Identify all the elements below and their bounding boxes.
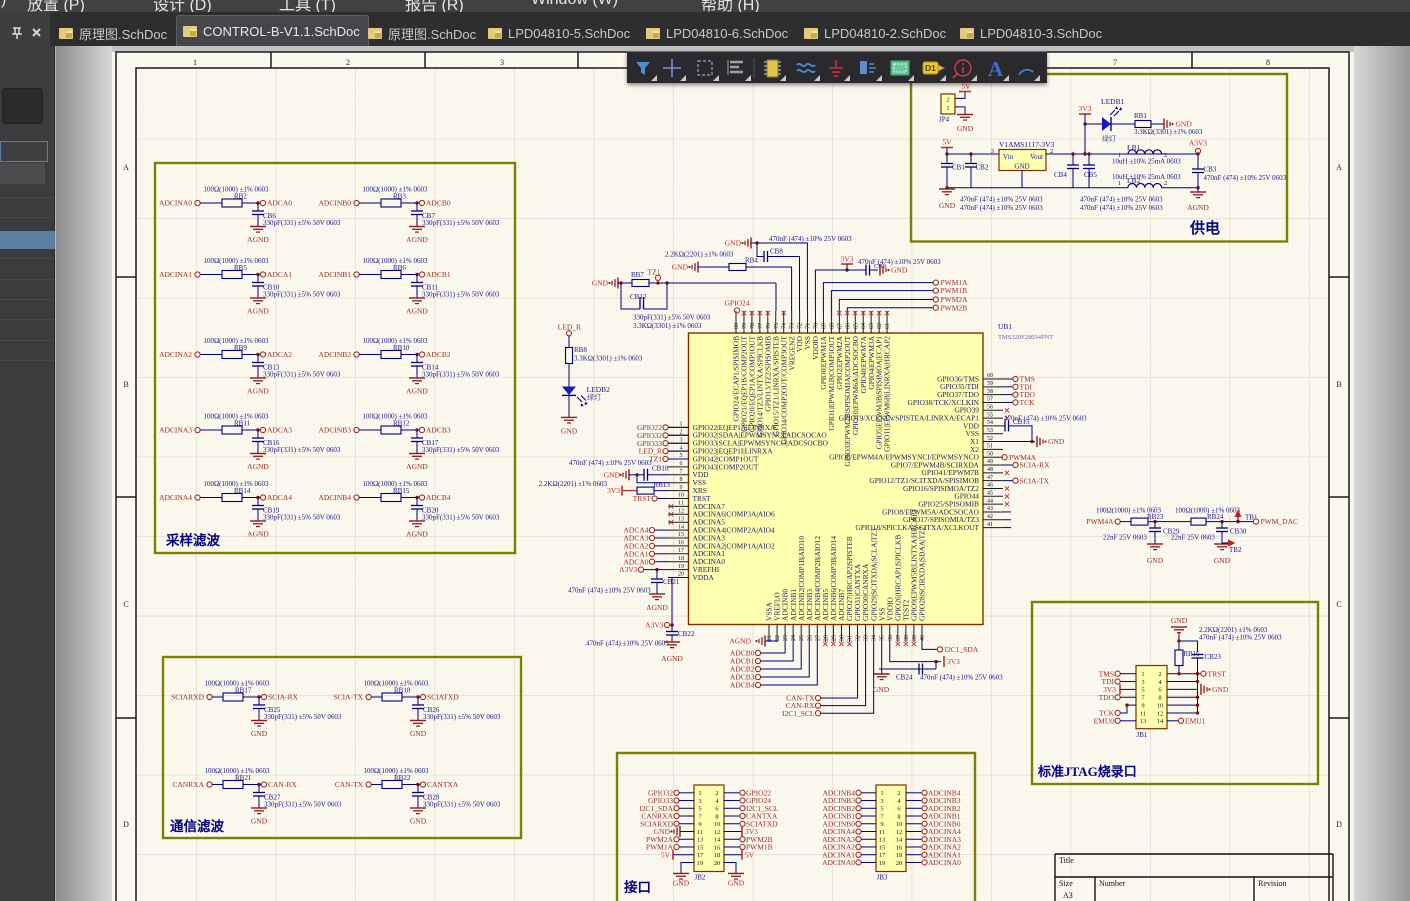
svg-text:采样滤波: 采样滤波: [166, 532, 220, 548]
pin 65 GPIO10|EPWM6A|ADCSOCBO: [854, 311, 856, 333]
svg-text:AGND: AGND: [729, 637, 751, 646]
wire: [821, 642, 858, 698]
MCU UB1 TMS320F28034PNT body: [689, 333, 984, 625]
svg-text:2: 2: [1158, 671, 1161, 678]
resistor RB15: [381, 494, 401, 502]
svg-text:GPIO11|EPWM6B|LINRXA|HRCAP2: GPIO11|EPWM6B|LINRXA|HRCAP2: [883, 336, 892, 452]
pin 8 VSS: [668, 482, 689, 484]
svg-text:D1: D1: [925, 63, 936, 73]
port ADCB2: [419, 352, 424, 357]
svg-text:22: 22: [775, 635, 781, 641]
svg-text:26: 26: [807, 635, 813, 641]
svg-text:GND: GND: [891, 266, 908, 275]
svg-text:35: 35: [880, 635, 886, 641]
wire: [861, 807, 876, 809]
svg-text:58: 58: [987, 389, 993, 395]
wire: [668, 442, 688, 444]
pin 2 GPIO32|SDAA|EPWMSYNCI|ADCSOCAO: [668, 434, 689, 436]
wire: [955, 92, 965, 98]
svg-text:GND: GND: [410, 817, 427, 826]
svg-text:GPIO28|SCIRXDA|SDAA|TZ2: GPIO28|SCIRXDA|SDAA|TZ2: [918, 526, 927, 621]
wire: [724, 854, 742, 856]
svg-text:ADCINA0: ADCINA0: [159, 199, 192, 208]
svg-text:10: 10: [1157, 702, 1164, 709]
svg-text:4: 4: [680, 445, 683, 451]
svg-text:GND: GND: [1214, 556, 1231, 565]
pin 38 TEST2: [905, 625, 907, 643]
svg-text:D: D: [123, 820, 129, 829]
pin 10 TRST: [668, 498, 689, 500]
svg-text:100Ω(1000) ±1% 0603: 100Ω(1000) ±1% 0603: [362, 186, 428, 194]
svg-text:15: 15: [678, 532, 684, 538]
wire: [212, 784, 223, 786]
svg-text:AGND: AGND: [247, 462, 269, 471]
svg-text:C: C: [123, 600, 128, 609]
svg-text:49: 49: [987, 459, 993, 465]
capacitor CB30: [1221, 522, 1223, 528]
pin 73 VREGENZ: [791, 311, 793, 333]
svg-text:RB3: RB3: [393, 193, 406, 201]
svg-text:A3: A3: [1063, 891, 1073, 900]
port PWM4A: [1002, 455, 1007, 460]
svg-text:470nF (474) ±10% 25V 0603: 470nF (474) ±10% 25V 0603: [586, 640, 669, 648]
pin 70 VDDIO: [815, 311, 817, 333]
wire: [724, 792, 740, 794]
wire: [861, 815, 876, 817]
wire: [1120, 673, 1136, 675]
svg-text:Vout: Vout: [1030, 153, 1043, 161]
title block: [1055, 854, 1333, 901]
svg-text:PWM1B: PWM1B: [941, 286, 968, 295]
svg-text:RB10: RB10: [393, 344, 410, 352]
pin 3 GPIO33|SCLA|EPWMSYNCO|ADCSOCBO: [668, 442, 689, 444]
svg-text:GND: GND: [873, 685, 890, 694]
ground GND: [251, 807, 267, 809]
capacitor CB5: [1088, 154, 1090, 165]
svg-text:2: 2: [1164, 180, 1167, 187]
svg-text:RB24: RB24: [1207, 513, 1224, 521]
capacitor CB3: [1192, 168, 1204, 170]
svg-text:11: 11: [697, 829, 703, 836]
ground GND: [1214, 543, 1230, 545]
port ADCA2: [260, 352, 265, 357]
svg-text:ADCINB0: ADCINB0: [318, 199, 351, 208]
wire: [668, 434, 688, 436]
svg-text:28: 28: [823, 635, 829, 641]
pin 59 GPIO35/TDI: [983, 386, 1003, 388]
port SCIA-RX: [261, 694, 266, 699]
wire: [200, 354, 222, 356]
wire: [359, 354, 381, 356]
svg-text:PWM2B: PWM2B: [941, 303, 968, 312]
svg-text:JB2: JB2: [695, 874, 706, 882]
bottom rail wire: [947, 187, 1128, 189]
wire: [673, 854, 694, 856]
svg-text:RB12: RB12: [393, 420, 410, 428]
capacitor CB11: [416, 275, 418, 283]
svg-text:22nF 25V 0603: 22nF 25V 0603: [1103, 534, 1147, 542]
wire: [821, 642, 866, 706]
svg-text:8: 8: [1266, 58, 1270, 67]
pin 44 GPIO25/SPISOMIB: [983, 503, 1003, 505]
svg-text:RB8: RB8: [574, 346, 587, 354]
svg-text:ADCINA0: ADCINA0: [928, 858, 961, 867]
port ADCA0: [260, 200, 265, 205]
wire: [906, 831, 922, 833]
pin 25 ADCINB2|COMP1B|AIO10: [800, 625, 802, 643]
pin 35 VSS: [881, 625, 883, 643]
pin 53 VSS: [983, 433, 1003, 435]
wire: [761, 642, 810, 677]
ground GND: [410, 720, 426, 722]
ground AGND: [250, 453, 266, 455]
pin 40 GPIO28|SCIRXDA|SDAA|TZ2: [921, 625, 923, 643]
svg-text:RB6: RB6: [393, 264, 406, 272]
svg-text:25: 25: [799, 635, 805, 641]
svg-text:TRST: TRST: [633, 494, 652, 503]
wire: [698, 266, 729, 268]
resistor RB5: [222, 271, 242, 279]
svg-text:TCK: TCK: [1020, 398, 1036, 407]
svg-text:55: 55: [987, 412, 993, 418]
svg-text:AGND: AGND: [406, 530, 428, 539]
wire: [823, 283, 933, 311]
LED LEDB2: [562, 387, 576, 396]
pin 50 GPIO6/EPWM4A/EPWMSYNCI/EPWMSYNCO: [983, 456, 1003, 458]
svg-text:10: 10: [714, 821, 721, 828]
svg-text:74: 74: [782, 323, 788, 329]
block box: JTAG (标准JTAG烧录口): [1032, 602, 1318, 784]
svg-text:9: 9: [680, 485, 683, 491]
svg-text:RB4: RB4: [745, 257, 758, 265]
svg-text:AGND: AGND: [1187, 203, 1209, 212]
svg-text:GPIO24: GPIO24: [724, 298, 749, 307]
wire: [1111, 123, 1135, 125]
svg-text:70: 70: [814, 323, 820, 329]
svg-text:18: 18: [896, 852, 903, 859]
svg-text:GND: GND: [1048, 437, 1065, 446]
resistor RB3: [381, 199, 401, 207]
port ADCA4: [260, 495, 265, 500]
svg-text:I2C1_SCL: I2C1_SCL: [782, 709, 815, 718]
pin 6 GPIO43|COMP2OUT: [668, 466, 689, 468]
capacitor CB17: [416, 430, 418, 438]
resistor RB24: [1191, 518, 1206, 525]
ground GND: [728, 872, 744, 874]
svg-text:3: 3: [1141, 679, 1144, 686]
capacitor CB19: [257, 498, 259, 506]
svg-text:100Ω(1000) ±1% 0603: 100Ω(1000) ±1% 0603: [204, 767, 270, 775]
svg-text:TB2: TB2: [1229, 546, 1242, 554]
wire: [402, 784, 420, 786]
svg-text:GND: GND: [728, 878, 745, 887]
svg-text:18: 18: [714, 852, 721, 859]
svg-text:13: 13: [1140, 718, 1147, 725]
svg-text:ADCA1: ADCA1: [267, 270, 292, 279]
ground GND: [561, 416, 577, 418]
svg-text:CB22: CB22: [678, 630, 695, 638]
pin 1 GPIO22|EQEP1A|LINRXA: [668, 426, 689, 428]
block box: sampling filter (采样滤波): [155, 163, 515, 553]
svg-text:100Ω(1000) ±1% 0603: 100Ω(1000) ±1% 0603: [363, 767, 429, 775]
wire: [906, 807, 922, 809]
svg-text:ADCINB2: ADCINB2: [318, 350, 351, 359]
capacitor CB7: [416, 203, 418, 211]
svg-text:3: 3: [698, 798, 701, 805]
svg-text:15: 15: [879, 844, 886, 851]
svg-text:46: 46: [987, 483, 993, 489]
svg-text:1: 1: [1141, 671, 1144, 678]
svg-text:5: 5: [880, 806, 883, 813]
pin 67 GPIO2|EPWM2A: [838, 311, 840, 333]
svg-text:12: 12: [714, 829, 721, 836]
svg-text:470nF (474) ±10% 25V 0603: 470nF (474) ±10% 25V 0603: [1204, 174, 1287, 182]
svg-text:1: 1: [680, 422, 683, 428]
svg-text:7: 7: [1113, 58, 1117, 67]
svg-text:470nF (474) ±10% 25V 0603: 470nF (474) ±10% 25V 0603: [569, 459, 652, 467]
wire GND to VSS pin8: [637, 475, 668, 483]
svg-text:ADCA3: ADCA3: [267, 426, 292, 435]
pin 16 ADCINA2|COMP1A|AIO2: [668, 545, 689, 547]
svg-text:51: 51: [987, 444, 993, 450]
svg-text:1: 1: [193, 58, 197, 67]
svg-text:2: 2: [897, 790, 900, 797]
wire: [242, 429, 260, 431]
svg-text:330pF(331) ±5% 50V 0603: 330pF(331) ±5% 50V 0603: [422, 291, 500, 299]
svg-text:AGND: AGND: [247, 307, 269, 316]
wire: [1120, 681, 1136, 683]
capacitor CB1: [946, 154, 948, 164]
pin 26 ADCINB3: [808, 625, 810, 643]
pin 57 GPIO38/TCK/XCLKIN: [983, 401, 1003, 403]
wire: [655, 553, 668, 555]
wire: [761, 642, 818, 685]
svg-text:100Ω(1000) ±1% 0603: 100Ω(1000) ±1% 0603: [203, 413, 269, 421]
wire: [861, 792, 876, 794]
wire + power port GND: [1003, 441, 1035, 443]
port SCIA-TX: [1003, 480, 1013, 482]
svg-text:RB23: RB23: [1147, 513, 1164, 521]
wire: [1003, 401, 1013, 403]
wire: [655, 537, 668, 539]
svg-text:GND: GND: [725, 239, 742, 248]
svg-text:41: 41: [987, 522, 993, 528]
test point TB2: [1221, 522, 1223, 543]
wire: [680, 831, 694, 833]
svg-text:14: 14: [714, 837, 721, 844]
wire: [242, 497, 260, 499]
svg-text:3.3KΩ(3301) ±1% 0603: 3.3KΩ(3301) ±1% 0603: [1134, 128, 1203, 136]
capacitor CB14: [416, 355, 418, 363]
svg-text:SCIA-TX: SCIA-TX: [1020, 476, 1050, 485]
power port GND: [870, 269, 879, 271]
pin 66 GPIO3|EPWM2B|SPISOMIA|COMP2OUT: [846, 311, 848, 333]
wire: [568, 364, 570, 387]
svg-text:GND: GND: [1014, 163, 1029, 171]
pin 69 GPIO0|EPWM1A: [822, 311, 824, 333]
wire: [668, 458, 688, 460]
svg-text:CB4: CB4: [1054, 171, 1067, 179]
svg-text:RB5: RB5: [234, 264, 247, 272]
pin 60 GPIO36/TMS: [983, 378, 1003, 380]
svg-text:3: 3: [991, 148, 994, 155]
svg-text:CB15: CB15: [1013, 418, 1030, 426]
wire: [724, 823, 740, 825]
pin 78 GPIO20/EQEP1A/COMP1OUT: [751, 311, 753, 333]
svg-text:2.2KΩ(2201) ±1% 0603: 2.2KΩ(2201) ±1% 0603: [539, 480, 608, 488]
svg-text:CAN-TX: CAN-TX: [335, 780, 364, 789]
svg-text:61: 61: [885, 323, 891, 329]
svg-text:ADCINB3: ADCINB3: [318, 426, 351, 435]
resistor RB10: [381, 351, 401, 359]
ground AGND: [409, 453, 425, 455]
svg-text:470nF (474) ±10% 25V 0603: 470nF (474) ±10% 25V 0603: [1199, 634, 1282, 642]
svg-text:Number: Number: [1099, 879, 1126, 888]
svg-text:A3V3: A3V3: [645, 621, 664, 630]
svg-text:330pF(331) ±5% 50V 0603: 330pF(331) ±5% 50V 0603: [263, 371, 341, 379]
svg-text:56: 56: [987, 404, 993, 410]
svg-text:A: A: [123, 163, 129, 172]
wire: [200, 497, 222, 499]
wire: [906, 854, 922, 856]
svg-text:3.3KΩ(3301) ±1% 0603: 3.3KΩ(3301) ±1% 0603: [633, 322, 702, 330]
svg-text:7: 7: [680, 469, 683, 475]
svg-text:330pF(331) ±5% 50V 0603: 330pF(331) ±5% 50V 0603: [633, 314, 711, 322]
svg-text:66: 66: [845, 323, 851, 329]
wire: [401, 274, 419, 276]
wire: [861, 800, 876, 802]
svg-text:ADCB2: ADCB2: [426, 350, 451, 359]
svg-text:8: 8: [715, 813, 718, 820]
svg-text:9: 9: [698, 821, 701, 828]
capacitor CB10: [257, 275, 259, 283]
power port GND: [1163, 119, 1165, 130]
svg-text:36: 36: [888, 635, 894, 641]
resistor RB8: [566, 348, 573, 364]
wire: [212, 696, 223, 698]
svg-text:5V: 5V: [661, 850, 671, 859]
svg-text:AGND: AGND: [247, 235, 269, 244]
svg-text:50: 50: [987, 451, 993, 457]
pin 17 ADCINA1: [668, 553, 689, 555]
wire: [724, 838, 740, 840]
ground AGND: [409, 226, 425, 228]
pin 77 GPIO14/TZ3/LINTXA/SPICLKB: [759, 311, 761, 333]
wire: [242, 274, 260, 276]
pin 15 ADCINA3: [668, 537, 689, 539]
wire: [242, 202, 260, 204]
wire: [1120, 521, 1131, 523]
svg-text:2: 2: [715, 790, 718, 797]
svg-text:16: 16: [714, 844, 721, 851]
svg-text:330pF(331) ±5% 50V 0603: 330pF(331) ±5% 50V 0603: [423, 713, 501, 721]
wire: [401, 429, 419, 431]
wire: [746, 267, 792, 311]
svg-text:8: 8: [1158, 695, 1161, 702]
svg-text:330pF(331) ±5% 50V 0603: 330pF(331) ±5% 50V 0603: [263, 446, 341, 454]
pin 61 GPIO11|EPWM6B|LINRXA|HRCAP2: [886, 311, 888, 333]
svg-text:AGND: AGND: [247, 387, 269, 396]
wire: [1148, 521, 1191, 523]
svg-text:GND: GND: [1212, 685, 1229, 694]
svg-text:100Ω(1000) ±1% 0603: 100Ω(1000) ±1% 0603: [203, 480, 269, 488]
wire: [243, 784, 261, 786]
wire: [906, 846, 922, 848]
svg-text:TDO: TDO: [1099, 693, 1115, 702]
svg-text:3.3KΩ(3301) ±1% 0603: 3.3KΩ(3301) ±1% 0603: [574, 355, 643, 363]
wire: [761, 642, 794, 661]
svg-text:CB30: CB30: [1230, 528, 1247, 536]
svg-text:2: 2: [680, 430, 683, 436]
svg-text:71: 71: [806, 323, 812, 329]
svg-text:GND: GND: [604, 470, 621, 479]
port PWM1B: [933, 288, 938, 293]
svg-text:ADCB0: ADCB0: [426, 199, 451, 208]
svg-text:GND: GND: [957, 124, 974, 133]
svg-text:1: 1: [698, 790, 701, 797]
pin 21 VSSA: [768, 625, 770, 643]
pin 47 GPIO12/TZ1/SCITXDA/SPISIMOB: [983, 480, 1003, 482]
port ADCA1: [260, 272, 265, 277]
pin 56 GPIO39: [983, 409, 1003, 411]
wire: [243, 696, 261, 698]
svg-text:CANTXA: CANTXA: [427, 780, 459, 789]
svg-text:38: 38: [904, 635, 910, 641]
svg-text:CB5: CB5: [1084, 171, 1097, 179]
pin 41 GPIO18/SPICLKA/SCITXA/XCLKOUT: [983, 527, 1003, 529]
resistor RB12: [381, 426, 401, 434]
power port GND: [1200, 684, 1202, 695]
ground AGND: [250, 226, 266, 228]
pin 4 GPIO23|EQEP1I|LINRXA: [668, 450, 689, 452]
wire: [1003, 386, 1013, 388]
pin 11 ADCINA7: [668, 505, 689, 507]
svg-text:GND: GND: [561, 427, 578, 436]
wire: [655, 545, 668, 547]
wire TZ1 net: [649, 282, 776, 284]
svg-text:CB2: CB2: [976, 164, 989, 172]
sheet grid: [137, 68, 1329, 901]
svg-text:AGND: AGND: [406, 235, 428, 244]
svg-text:5: 5: [680, 453, 683, 459]
ground GND: [1147, 543, 1163, 545]
resistor RB11: [222, 426, 242, 434]
wire: [1120, 705, 1136, 713]
svg-text:330pF(331) ±5% 50V 0603: 330pF(331) ±5% 50V 0603: [263, 291, 341, 299]
svg-text:GPIO29|SCITXDA|SCLA|TZ3: GPIO29|SCITXDA|SCLA|TZ3: [869, 528, 878, 621]
wire VDDA pin20 down: [668, 578, 672, 626]
svg-text:2.2KΩ(2201) ±1% 0603: 2.2KΩ(2201) ±1% 0603: [665, 251, 734, 259]
svg-text:RB21: RB21: [235, 774, 252, 782]
svg-text:73: 73: [790, 323, 796, 329]
svg-text:ADCB4: ADCB4: [730, 681, 755, 690]
capacitor CB29: [1154, 522, 1156, 528]
wire: [1120, 720, 1136, 722]
svg-text:20: 20: [714, 860, 721, 867]
svg-text:GND: GND: [592, 279, 609, 288]
svg-text:32: 32: [856, 635, 862, 641]
pin 80 GPIO24/ECAP1/SPISIMOB: [735, 311, 737, 333]
svg-text:CB8: CB8: [770, 248, 783, 256]
capacitor CB2: [970, 154, 972, 164]
svg-text:100Ω(1000) ±1% 0603: 100Ω(1000) ±1% 0603: [203, 337, 269, 345]
svg-text:3: 3: [880, 798, 883, 805]
wire: [1206, 521, 1253, 523]
svg-text:30: 30: [839, 635, 845, 641]
svg-text:19: 19: [678, 564, 684, 570]
svg-text:ADCINA0: ADCINA0: [822, 858, 855, 867]
svg-text:RB17: RB17: [235, 687, 252, 695]
